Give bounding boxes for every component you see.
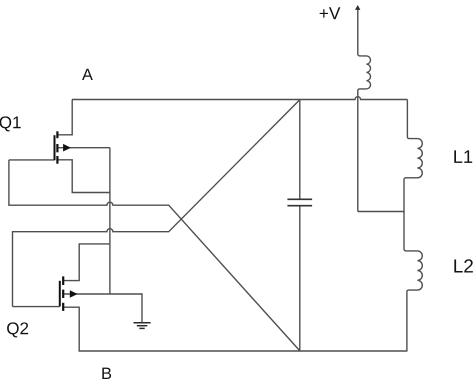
wire Q1 gate feedback upper line with hop	[9, 160, 300, 351]
Q1 channel middle dash (body)	[56, 144, 58, 152]
wire +V supply line	[357, 6, 359, 50]
Q2 channel bottom dash (source)	[62, 303, 64, 311]
+V arrow head	[355, 5, 360, 10]
wire Q1 source step	[57, 160, 110, 193]
wire L2 to bottom rail	[406, 300, 408, 351]
wire mid vertical Q1 source to Q2 drain to ground line	[109, 148, 111, 294]
Q2 body arrow	[70, 290, 78, 298]
Q1 gate bar	[54, 135, 56, 160]
transistor Q1	[55, 131, 58, 163]
wire Q2 source to bottom rail B	[63, 307, 407, 351]
label Q2	[7, 322, 28, 337]
ground	[134, 323, 151, 329]
Q2 channel top dash (drain)	[62, 276, 64, 285]
wire Q1 drain to rail	[57, 100, 72, 135]
wire Q1 gate lead	[9, 159, 55, 161]
label Q1	[0, 116, 21, 131]
wire L1 to L2	[403, 185, 405, 245]
Q2 channel middle dash (body)	[62, 290, 64, 298]
inductor choke from +V	[358, 50, 371, 95]
wire capacitor branch lower	[299, 206, 301, 351]
wire center tap horizontal	[358, 211, 404, 213]
wire rail to L1 top	[406, 100, 408, 131]
wire Q2 body to ground	[63, 294, 142, 322]
wire Q2 gate lead	[13, 306, 60, 308]
wire capacitor branch upper	[299, 100, 301, 199]
inductor L1	[404, 130, 422, 185]
wire Q2 drain step	[63, 244, 110, 281]
Q1 body arrow	[63, 144, 71, 152]
wire choke to center tap	[357, 95, 359, 212]
inductor L2	[404, 245, 422, 300]
label B	[102, 368, 111, 379]
transistor Q2	[60, 276, 63, 311]
label L1	[454, 150, 472, 163]
label L2	[454, 259, 473, 272]
wire Q2 gate feedback lower line with hop	[13, 100, 301, 307]
Q2 gate bar	[59, 281, 61, 307]
Q1 channel top dash (drain)	[56, 131, 58, 138]
wire top rail A	[72, 97, 407, 100]
Q1 channel bottom dash (source)	[56, 156, 58, 164]
capacitor C1 plates	[287, 199, 312, 205]
label A	[82, 69, 93, 80]
label +V	[320, 7, 341, 19]
wire Q1 body lead	[57, 147, 110, 149]
